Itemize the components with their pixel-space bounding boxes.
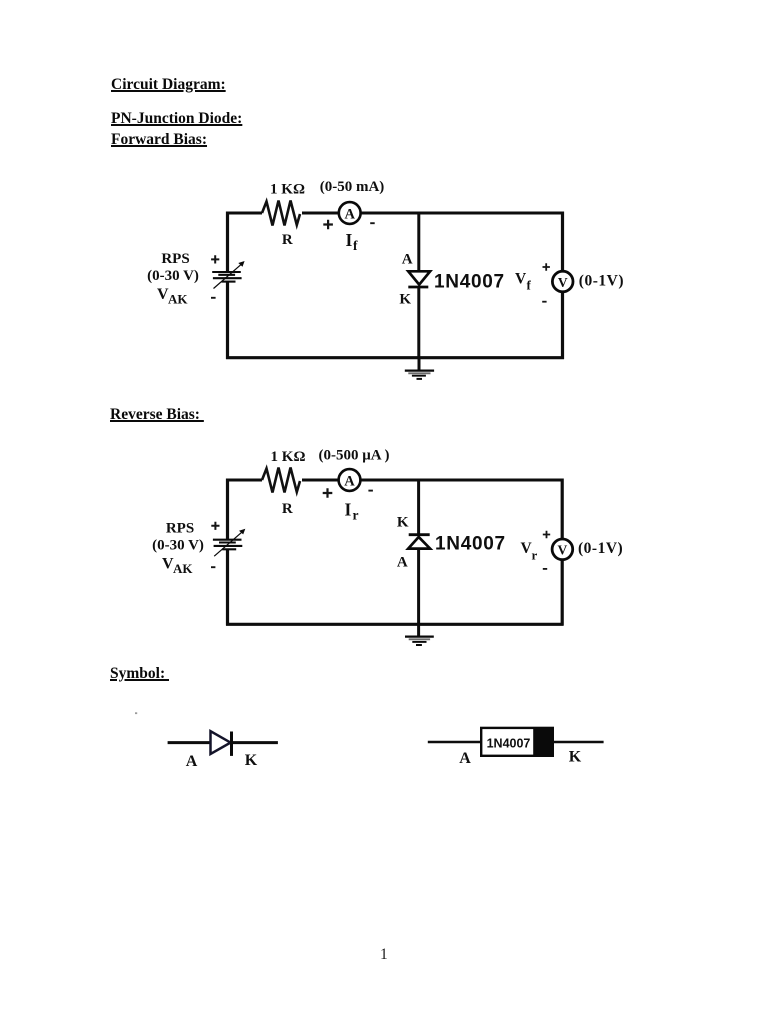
svg-text:I: I [346, 230, 353, 250]
label 1N4007 (circuit 1) [434, 271, 505, 292]
svg-text:r: r [353, 508, 359, 523]
svg-text:R: R [282, 501, 293, 517]
page number 1 [380, 946, 388, 964]
voltmeter minus (circuit 2) [543, 568, 547, 570]
voltmeter V2 (circuit 2) [552, 539, 573, 560]
svg-text:A: A [186, 753, 198, 770]
diode D1 1N4007 (circuit 1) [408, 271, 430, 287]
wire left vertical upper (circuit 2) [226, 479, 229, 540]
svg-text:I: I [345, 500, 352, 520]
heading Symbol [110, 665, 169, 683]
svg-text:K: K [399, 291, 411, 307]
svg-text:AK: AK [168, 292, 188, 307]
label Vf (circuit 1) [515, 271, 532, 293]
wire lead right (diode symbol) [232, 741, 278, 744]
ammeter plus terminal (circuit 1) [323, 220, 333, 230]
label VAK (circuit 2) [162, 556, 193, 577]
svg-text:(0-500 μA ): (0-500 μA ) [319, 448, 390, 464]
wire lead left (diode symbol) [168, 741, 210, 744]
label VAK (circuit 1) [157, 286, 188, 307]
svg-text:r: r [532, 548, 538, 563]
voltmeter plus (circuit 2) [543, 531, 550, 538]
svg-text:A: A [344, 474, 355, 490]
svg-text:(0-30 V): (0-30 V) [152, 538, 204, 554]
svg-text:RPS: RPS [161, 251, 189, 267]
voltmeter plus (circuit 1) [543, 263, 550, 270]
svg-text:A: A [459, 750, 471, 767]
wire left vertical lower (circuit 1) [226, 282, 229, 360]
heading PN-Junction Diode [111, 110, 242, 128]
wire diode branch upper (circuit 1) [417, 212, 420, 272]
svg-text:K: K [245, 752, 258, 769]
label K cathode (circuit 2) [397, 515, 409, 531]
wire lead left (package symbol) [428, 741, 482, 744]
ground (circuit 2) [405, 624, 434, 646]
svg-text:RPS: RPS [166, 521, 194, 537]
label 1 KOhm (circuit 1) [270, 181, 305, 197]
wire lead right (package symbol) [553, 741, 604, 744]
label A (diode symbol) [186, 753, 198, 770]
svg-text:A: A [344, 207, 355, 223]
svg-text:V: V [558, 275, 568, 290]
resistor R (circuit 2) [262, 467, 302, 494]
label 1N4007 (circuit 2) [435, 533, 506, 554]
battery plus label (circuit 1) [211, 255, 219, 263]
label K (diode symbol) [245, 752, 258, 769]
heading Circuit Diagram [111, 76, 226, 94]
wire right vertical (circuit 1) [561, 212, 564, 360]
heading Reverse Bias [110, 406, 204, 424]
svg-text:A: A [397, 554, 408, 570]
heading Forward Bias [111, 131, 207, 149]
label R (circuit 2) [282, 501, 293, 517]
battery RPS (circuit 2) [213, 529, 245, 557]
label (0-1V) (circuit 2) [578, 540, 623, 557]
diode symbol triangle [211, 731, 231, 754]
label RPS (circuit 1) [161, 251, 189, 267]
label 1 KOhm (circuit 2) [271, 449, 306, 465]
battery minus label (circuit 1) [211, 297, 216, 299]
resistor R (circuit 1) [262, 200, 302, 227]
battery plus label (circuit 2) [211, 522, 219, 530]
label Vr (circuit 2) [521, 540, 538, 563]
wire top (circuit 2) [226, 479, 564, 482]
svg-text:1 KΩ: 1 KΩ [271, 449, 306, 465]
label A anode (circuit 2) [397, 554, 408, 570]
svg-text:K: K [569, 749, 582, 766]
svg-text:(0-30 V): (0-30 V) [147, 268, 199, 284]
voltmeter V1 (circuit 1) [552, 271, 573, 292]
label (0-50 mA) (circuit 1) [320, 179, 385, 195]
ammeter minus terminal (circuit 1) [370, 222, 375, 224]
diode symbol cathode bar [230, 732, 233, 756]
label (0-500 uA) (circuit 2) [319, 448, 390, 464]
wire diode branch lower (circuit 1) [417, 287, 420, 359]
svg-text:(0-50 mA): (0-50 mA) [320, 179, 385, 195]
svg-text:(0-1V): (0-1V) [578, 540, 623, 557]
svg-text:V: V [558, 543, 568, 558]
wire top (circuit 1) [226, 212, 564, 215]
wire right vertical (circuit 2) [561, 479, 564, 626]
label RPS (circuit 2) [166, 521, 194, 537]
wire bottom (circuit 2) [226, 623, 564, 626]
svg-text:(0-1V): (0-1V) [579, 273, 624, 290]
diode D2 1N4007 reversed (circuit 2) [408, 535, 430, 549]
battery minus label (circuit 2) [211, 566, 215, 568]
wire bottom (circuit 1) [226, 356, 564, 359]
label If (circuit 1) [346, 230, 359, 253]
wire left vertical upper (circuit 1) [226, 212, 229, 273]
label R (circuit 1) [282, 232, 293, 248]
svg-text:1N4007: 1N4007 [435, 533, 506, 554]
svg-text:1N4007: 1N4007 [434, 271, 505, 292]
wire left vertical lower (circuit 2) [226, 549, 229, 625]
svg-text:K: K [397, 515, 409, 531]
label A (package symbol) [459, 750, 471, 767]
label (0-1V) (circuit 1) [579, 273, 624, 290]
wire diode branch lower (circuit 2) [417, 549, 420, 626]
label (0-30 V) (circuit 1) [147, 268, 199, 284]
svg-text:f: f [353, 238, 358, 253]
voltmeter minus (circuit 1) [542, 301, 546, 303]
ammeter minus terminal (circuit 2) [368, 490, 373, 492]
package body 1N4007 [481, 728, 553, 756]
stray mark [135, 712, 137, 714]
label K cathode (circuit 1) [399, 291, 411, 307]
label A anode (circuit 1) [402, 251, 413, 267]
wire diode branch upper (circuit 2) [417, 479, 420, 535]
label K (package symbol) [569, 749, 582, 766]
ammeter plus terminal (circuit 2) [323, 488, 333, 498]
battery RPS (circuit 1) [212, 261, 244, 289]
svg-text:1N4007: 1N4007 [487, 737, 531, 751]
svg-text:R: R [282, 232, 293, 248]
ammeter A2 (circuit 2) [339, 469, 361, 491]
svg-text:V: V [515, 271, 527, 288]
ammeter A1 (circuit 1) [339, 202, 361, 224]
svg-text:AK: AK [173, 561, 193, 576]
ground (circuit 1) [405, 357, 434, 379]
svg-text:A: A [402, 251, 413, 267]
label (0-30 V) (circuit 2) [152, 538, 204, 554]
svg-text:1 KΩ: 1 KΩ [270, 181, 305, 197]
svg-text:f: f [527, 278, 532, 293]
label Ir (circuit 2) [345, 500, 359, 523]
